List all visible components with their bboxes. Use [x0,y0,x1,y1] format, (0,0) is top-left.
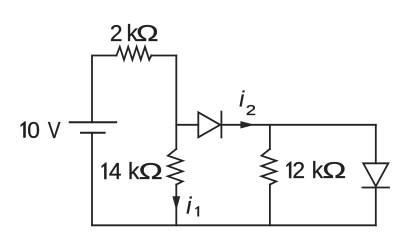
resistor R 12 kOhm (vertical zigzag) [262,149,277,185]
svg-text:2: 2 [246,102,256,119]
resistor R 2 kOhm (horizontal zigzag) [117,47,152,60]
svg-text:4: 4 [109,158,122,184]
wire: from diode D1 cathode to 12k node and on to right corner [221,124,375,126]
diode D2 (vertical, pointing down): triangle [363,163,388,186]
svg-text:Ω: Ω [139,159,163,184]
label "14 kOhm" for resistor R 14k [102,158,163,184]
svg-text:2: 2 [292,157,305,183]
resistor R 14 kOhm (vertical zigzag) [168,149,183,185]
wire: 12k branch vertical from diode row down to 12k resistor top [269,125,271,149]
wire: from diode D2 cathode down to bottom-right corner [375,188,377,226]
svg-text:V: V [48,118,61,143]
wire: middle vertical from top corner down through diode junction to 14k resistor top [175,56,177,150]
svg-text:i: i [239,86,245,111]
diode D1: cathode bar [220,112,222,138]
label "12 kOhm" for resistor R 12k [286,157,346,183]
label "10 V" for battery [21,117,61,143]
svg-text:0: 0 [27,117,40,143]
diode D2: cathode bar [363,187,390,189]
current arrow i1 (filled arrowhead pointing down on 14k branch) [172,196,180,210]
wire: anode lead from middle vertical to diode D1 [176,124,198,126]
svg-text:2: 2 [110,20,123,46]
battery 10 V: negative (short) plate [81,132,105,134]
svg-text:Ω: Ω [322,158,346,183]
battery 10 V: positive (long) plate [70,121,117,123]
diode D1 (horizontal, pointing right): triangle [198,112,220,137]
svg-text:Ω: Ω [136,20,158,46]
svg-text:i: i [186,193,192,219]
wire: top-right from 2k resistor to middle node top corner [151,55,176,57]
wire: from 14k resistor bottom down through i1 arrow to bottom rail [175,185,177,226]
wire: from 12k resistor bottom to bottom rail [269,185,271,226]
wire: left vertical from battery - terminal down to bottom-left corner [91,133,93,226]
label "i1" subscript 1 [195,206,199,217]
label "2 kOhm" for resistor R 2k [110,20,159,46]
wire: bottom rail from bottom-left corner to bottom-right corner [92,224,376,226]
wire: right vertical from top-right corner down to diode D2 anode [375,125,377,164]
wire: left vertical from battery + terminal up to top-left corner and along top to 2k resistor [92,56,117,123]
current arrow i2 (filled arrowhead on diode-row wire) [240,121,254,128]
